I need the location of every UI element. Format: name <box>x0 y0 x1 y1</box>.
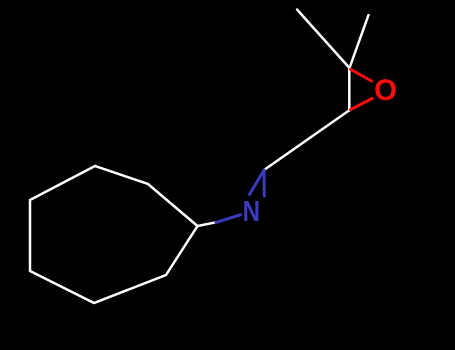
double bond C=N line 1 <box>250 170 265 195</box>
wire bond ring-C to N, carbon half <box>198 222 217 226</box>
cycloheptane ring <box>30 166 198 303</box>
svg-text:N: N <box>243 196 260 228</box>
wire bond oxirane C2 to O <box>351 99 373 110</box>
wire bond oxirane C2-C3 <box>348 68 351 111</box>
double bond C=N line 2 <box>263 171 266 196</box>
wire bond ring-C to N, nitrogen half <box>216 215 241 223</box>
wire bond oxirane C3 to O <box>351 69 372 81</box>
wire bond methyl M2 to oxirane C3 <box>350 15 369 68</box>
svg-text:O: O <box>374 74 397 107</box>
wire bond methyl M1 to oxirane C3 <box>297 10 350 69</box>
wire bond oxirane-C2 to imine CH <box>264 111 349 171</box>
